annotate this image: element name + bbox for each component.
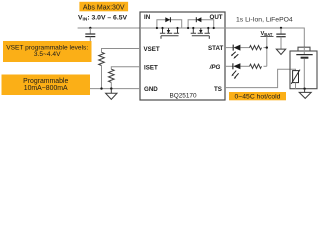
resistor R2 ISET: [109, 69, 115, 88]
svg-text:Abs Max:30V: Abs Max:30V: [83, 4, 125, 11]
node battery negative junction: [303, 88, 305, 90]
pin STAT label: [208, 45, 223, 52]
wire ISET trace: [111, 67, 140, 70]
transistor Q1 with body diode: [156, 17, 182, 39]
callout box temperature range: [229, 92, 286, 101]
node VIN junction: [89, 27, 91, 29]
svg-text:1s Li-Ion, LiFePO4: 1s Li-Ion, LiFePO4: [236, 17, 293, 24]
op-amp U1 BQ25170 charger IC body: [140, 12, 225, 100]
callout box Abs Max: [79, 2, 128, 12]
pin TS label: [214, 86, 222, 93]
label VIN spec text: [78, 14, 127, 22]
ground GND2: [276, 49, 285, 54]
node ISET resistor bottom: [110, 87, 112, 89]
label battery chemistry text: [236, 17, 293, 24]
svg-text:10mA~800mA: 10mA~800mA: [24, 85, 68, 92]
svg-text:/PG: /PG: [209, 64, 221, 71]
callout box VSET programmable: [3, 41, 92, 62]
svg-text:VIN: 3.0V – 6.5V: VIN: 3.0V – 6.5V: [78, 14, 127, 22]
pin OUT label: [210, 14, 223, 21]
svg-text:GND: GND: [144, 86, 158, 93]
pin GND label: [144, 86, 158, 93]
thermistor RT1: [291, 70, 300, 89]
resistor R3 STAT pull-up: [240, 46, 266, 50]
svg-text:3.5~4.4V: 3.5~4.4V: [34, 51, 61, 58]
wire VBAT pull-up stub: [266, 36, 268, 66]
battery cell: [296, 47, 312, 88]
pin IN label: [144, 14, 151, 21]
pin VSET label: [144, 46, 160, 53]
svg-text:OUT: OUT: [210, 14, 223, 21]
wire PG row: [225, 65, 233, 67]
wire VIN input rail: [78, 27, 140, 29]
svg-text:ISET: ISET: [144, 64, 158, 71]
svg-text:STAT: STAT: [208, 45, 223, 52]
svg-text:VSET: VSET: [144, 46, 160, 53]
ground GND3: [299, 89, 311, 99]
svg-text:TS: TS: [214, 86, 222, 93]
battery pack BT1 outline: [290, 47, 317, 88]
label BQ25170 part number: [170, 93, 197, 100]
node OUT capacitor junction: [280, 27, 282, 29]
node STAT pull-up junction: [266, 46, 268, 48]
capacitor C2 output: [276, 28, 285, 49]
capacitor C1 input: [85, 28, 95, 41]
node VSET resistor bottom: [100, 87, 102, 89]
wire OUT to battery: [225, 28, 304, 47]
wire internal rail IN to OUT: [140, 27, 225, 29]
resistor R4 PG pull-up: [240, 64, 266, 68]
node VBAT label: [261, 31, 274, 37]
wire VSET trace: [102, 49, 141, 53]
svg-text:0~45C hot/cold: 0~45C hot/cold: [235, 94, 281, 101]
pin ISET label: [144, 64, 158, 71]
pin PG label: [209, 64, 221, 71]
callout box programmable current: [2, 75, 91, 96]
LED D1 STAT: [231, 45, 241, 59]
wire bottom GND rail: [90, 88, 140, 90]
resistor R1 VSET: [99, 52, 105, 88]
svg-text:BQ25170: BQ25170: [170, 93, 197, 100]
transistor Q2 with body diode: [187, 17, 215, 39]
svg-text:IN: IN: [144, 14, 151, 21]
wire TS trace: [225, 69, 296, 87]
wire STAT row: [225, 47, 233, 49]
LED D2 PG: [231, 63, 240, 79]
ground GND1: [106, 89, 117, 100]
